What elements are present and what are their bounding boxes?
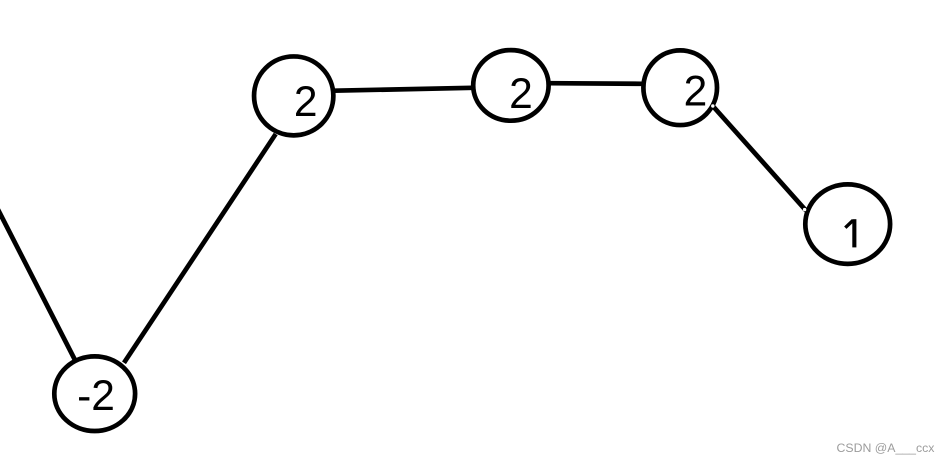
node A: first circle node "2" — [254, 56, 333, 135]
node B: second circle node "2" — [473, 50, 548, 121]
svg-text:2: 2 — [684, 69, 708, 116]
node C: third circle node "2" — [643, 50, 717, 125]
wire: edge third node 2 to node 1 — [714, 107, 807, 211]
wire: edge first node 2 to second node 2 — [334, 88, 478, 91]
wire: edge from off-canvas left to node -2 — [0, 190, 75, 360]
wire: edge node -2 to first node 2 — [124, 134, 276, 363]
svg-text:2: 2 — [509, 71, 533, 118]
svg-text:CSDN @A___ccx: CSDN @A___ccx — [837, 441, 936, 455]
junction gap dot at edge meeting node C — [711, 104, 714, 107]
node E: circle node "-2" — [54, 356, 135, 431]
wire: edge second node 2 to third node 2 — [549, 81, 643, 86]
svg-text:-2: -2 — [77, 373, 115, 420]
node D: circle node "1" — [805, 184, 890, 264]
junction gap dot at edge meeting node D — [803, 208, 806, 211]
svg-text:2: 2 — [294, 79, 318, 126]
